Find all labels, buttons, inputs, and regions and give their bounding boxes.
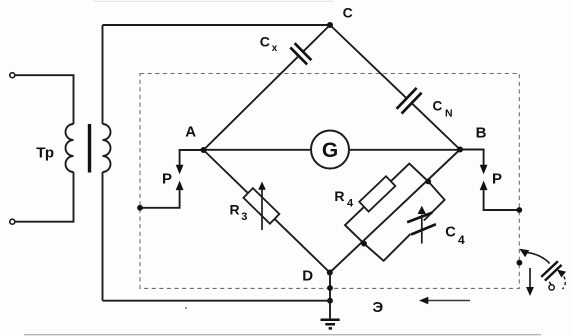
node C (327, 22, 333, 28)
node: trimmer tap on shield (517, 260, 523, 266)
wire: C4 to rhombus top right (424, 181, 445, 220)
node: shield bottom tap (327, 285, 333, 291)
galvanometer G (311, 131, 349, 169)
trimmer symbol: solid arc (527, 253, 549, 264)
svg-text:3: 3 (241, 211, 247, 223)
speck (185, 307, 187, 309)
wire: primary top lead (15, 75, 74, 124)
svg-text:N: N (445, 108, 453, 120)
left P up arrowhead (176, 181, 184, 191)
wire: A to G (204, 149, 312, 151)
right P up arrowhead (480, 181, 488, 191)
node n2 (rhombus upper junction) (425, 179, 431, 185)
terminal bottom-left (10, 219, 15, 224)
left P down arrowhead (176, 165, 184, 175)
wire: right P branch from B (460, 150, 484, 167)
trimmer symbol: dashed arc with arrowhead (563, 277, 566, 290)
scan artifact bottom line (24, 334, 541, 336)
arrow (direction of E) (428, 300, 471, 302)
capacitor Cx (290, 43, 311, 64)
node: bottom wire junction (327, 298, 333, 304)
svg-text:C: C (433, 98, 443, 113)
wire: left P lower segment to shield (140, 190, 180, 208)
R3 adjust arrow (261, 190, 263, 231)
svg-text:4: 4 (458, 233, 465, 247)
svg-text:Тр: Тр (36, 145, 54, 162)
resistor R3 (243, 188, 279, 224)
wire: secondary top vertical (102, 25, 104, 124)
trimmer symbol: capacitor plates (541, 261, 561, 280)
capacitor CN (397, 88, 422, 114)
wire: D down to ground (329, 273, 331, 320)
wire: C to CN upper segment (330, 25, 407, 98)
wire: C to Cx upper segment (303, 25, 330, 52)
wire: rhombus upper branch (R4 branch) (345, 164, 428, 244)
svg-text:C: C (260, 33, 270, 49)
wire: primary bottom lead (15, 172, 74, 222)
resistor R4 (359, 176, 395, 211)
capacitor C4 plates (407, 213, 436, 235)
svg-text:4: 4 (347, 197, 354, 209)
trimmer symbol: down arrow (529, 268, 531, 288)
wire: secondary bottom vertical (102, 172, 104, 301)
svg-text:P: P (492, 171, 502, 188)
wire: CN to node B (412, 103, 460, 149)
svg-text:C: C (445, 224, 456, 240)
right P down arrowhead (480, 165, 488, 175)
svg-text:B: B (476, 125, 487, 142)
trimmer terminal circle (549, 285, 554, 290)
node n1 (rhombus lower junction) (361, 241, 367, 247)
wire: D to B diagonal (330, 150, 460, 273)
wire: bottom return to transformer (103, 300, 331, 302)
wire: left P branch from A (180, 150, 204, 166)
transformer Tp secondary winding (103, 124, 111, 172)
scan artifact top line (93, 0, 333, 2)
svg-text:C: C (343, 4, 353, 20)
wire: A to D diagonal (204, 150, 330, 273)
wire: right P lower segment to shield (484, 190, 520, 211)
C4 adjust arrow (421, 215, 423, 244)
transformer Tp primary winding (66, 124, 74, 172)
svg-text:R: R (230, 201, 240, 217)
svg-text:P: P (162, 170, 172, 187)
wire: Cx to node A (204, 56, 299, 150)
node: right shield tap (516, 207, 522, 213)
transformer core (88, 124, 91, 173)
wire: rhombus lower branch to C4 (364, 234, 411, 261)
svg-text:x: x (272, 43, 278, 54)
svg-text:R: R (334, 188, 344, 204)
wire: top wire secondary to node C (103, 24, 331, 26)
svg-text:Э: Э (373, 299, 384, 316)
trimmer symbol: arrow to shield (519, 249, 529, 257)
ground (321, 320, 340, 329)
svg-text:D: D (302, 267, 313, 284)
svg-text:G: G (322, 139, 338, 162)
svg-text:A: A (185, 123, 196, 140)
shield (dashed screen box) (140, 74, 519, 289)
node D (327, 270, 333, 276)
node A (201, 147, 207, 153)
terminal top-left (10, 73, 15, 78)
trimmer symbol: lead to terminal (549, 282, 551, 285)
node: left shield tap (137, 205, 143, 211)
wire: G to B (349, 149, 460, 151)
node B (457, 147, 463, 153)
